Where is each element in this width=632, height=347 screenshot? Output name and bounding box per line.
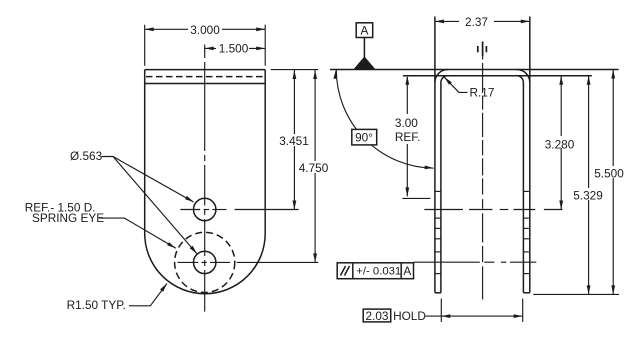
arrow 2.03 left	[441, 314, 450, 318]
right leg bottom	[523, 292, 529, 294]
dimension 3.000 extension line right	[264, 25, 266, 66]
left leg bottom	[435, 292, 441, 294]
arrow 4.750 bottom	[313, 253, 317, 262]
dimension 5.500 line	[612, 70, 614, 295]
arrow 5.500 bottom	[611, 285, 615, 294]
lower hole horizontal centerline	[178, 261, 319, 263]
arrow 3.451 bottom	[293, 201, 297, 210]
left leg inner edge	[440, 83, 442, 293]
left inner corner arc	[441, 76, 448, 83]
plate bottom arc R1.50	[145, 234, 266, 294]
arrow 5.329 top	[587, 76, 591, 85]
arrow 2.37 right	[521, 20, 530, 24]
svg-text:4.750: 4.750	[299, 161, 329, 175]
arrow leader 0.563 lower	[190, 246, 197, 254]
dimension 2.37 line	[435, 20, 530, 22]
plate left edge	[144, 70, 146, 234]
parallelism symbol	[341, 266, 346, 276]
left leg thread ticks	[435, 191, 440, 273]
svg-text:3.451: 3.451	[279, 134, 309, 148]
text 3.451	[278, 134, 311, 146]
upper eye centerline (right view)	[424, 209, 562, 211]
arrow 90 top	[333, 70, 337, 79]
text 2.37	[459, 16, 494, 27]
arrow R.17	[444, 77, 452, 85]
svg-text:3.00: 3.00	[395, 116, 418, 130]
2.03 HOLD left extension line	[440, 299, 442, 322]
arrow 3.000 left	[145, 27, 154, 31]
datum A box	[356, 23, 373, 38]
left leg outer edge	[434, 17, 436, 293]
arrow 3.280 bottom	[559, 201, 563, 210]
dimension 3.00 REF line	[406, 77, 408, 196]
dimension 3.000 extension line left	[144, 25, 146, 66]
90 degree box	[352, 129, 377, 145]
svg-text:HOLD: HOLD	[393, 309, 426, 323]
svg-text:R1.50 TYP.: R1.50 TYP.	[67, 298, 126, 312]
arrow 5.500 top	[611, 70, 615, 79]
lower hole	[194, 251, 216, 273]
datum stem	[363, 38, 365, 58]
svg-text:REF.: REF.	[395, 130, 421, 144]
leader spring eye	[99, 218, 176, 248]
plate right edge	[264, 70, 266, 234]
2.03 box	[363, 309, 391, 322]
spring eye hidden circle 1.50 D	[175, 232, 235, 292]
upper hole	[194, 198, 216, 220]
right outer corner arc	[517, 70, 530, 83]
arrow 3.00 REF top	[405, 76, 409, 85]
dimension 3.280 line	[560, 76, 562, 210]
svg-text:+/- 0.031: +/- 0.031	[356, 266, 401, 278]
arrow 3.280 top	[559, 76, 563, 85]
right leg thread ticks	[524, 191, 529, 273]
arrow 5.329 bottom	[587, 285, 591, 294]
right inner corner arc	[517, 76, 524, 83]
arrow 2.37 left	[435, 20, 444, 24]
arrow 1.500 right	[256, 47, 265, 51]
leader R.17	[444, 77, 467, 92]
90 degree dimension arc	[336, 70, 433, 168]
leader 0.563 tail	[102, 157, 194, 203]
datum surface line (outer top)	[330, 69, 619, 71]
text 3.280	[544, 136, 577, 148]
svg-text:2.37: 2.37	[465, 15, 488, 29]
inner top edge / extension line	[403, 75, 592, 77]
right leg outer edge	[529, 17, 531, 293]
center mark symbol	[478, 42, 487, 57]
text 3.000	[188, 24, 222, 35]
lower eye centerline (right view)	[414, 261, 537, 263]
arrow 1.500 left	[205, 47, 214, 51]
feature control frame box	[337, 263, 413, 279]
svg-text:3.280: 3.280	[545, 137, 575, 151]
svg-text:Ø.563: Ø.563	[70, 149, 103, 163]
text 5.500	[594, 166, 626, 178]
dimension 3.000 line	[145, 28, 266, 30]
arrow 4.750 top	[313, 70, 317, 79]
svg-text:A: A	[360, 24, 368, 38]
text 3.00 REF.	[393, 114, 426, 144]
upper hole horizontal centerline	[180, 209, 298, 211]
text 5.329	[573, 188, 606, 200]
dimension 5.329 line	[588, 76, 590, 295]
arrow leader R1.50	[160, 283, 167, 291]
arrow leader 0.563 upper	[185, 196, 194, 202]
arrow 3.000 right	[256, 27, 265, 31]
svg-text:2.03: 2.03	[366, 309, 389, 323]
svg-text:3.000: 3.000	[190, 23, 220, 37]
arrow 3.00 REF bottom	[405, 187, 409, 196]
plate bend band bottom line	[145, 83, 266, 85]
dimension 3.451 line	[293, 70, 295, 210]
svg-text:90°: 90°	[355, 131, 373, 145]
leader R1.50	[129, 284, 167, 306]
svg-text:R.17: R.17	[470, 86, 495, 100]
svg-text:A: A	[403, 264, 411, 278]
plate hidden bend line (dashed)	[146, 76, 264, 78]
svg-text:SPRING EYE: SPRING EYE	[32, 211, 104, 225]
2.03 HOLD dimension line	[441, 315, 522, 317]
left outer corner arc	[435, 70, 448, 83]
dimension 1.500 line	[205, 47, 266, 49]
top edge right extension line	[271, 69, 319, 71]
plate vertical centerline	[204, 45, 206, 312]
arrow 90 right	[425, 166, 434, 170]
plate top edge	[145, 69, 266, 71]
svg-text:1.500: 1.500	[219, 41, 249, 55]
2.03 HOLD right extension line	[522, 299, 524, 322]
text 4.750	[299, 161, 332, 173]
right leg inner edge	[522, 83, 524, 293]
2.03 HOLD leader	[425, 315, 443, 317]
3.00 REF bottom reference line	[403, 197, 431, 199]
arrow 2.03 right	[514, 314, 523, 318]
svg-text:5.329: 5.329	[573, 188, 603, 202]
bottom right extension line	[533, 293, 619, 295]
leader 0.563 second branch	[113, 157, 197, 254]
text 1.500	[216, 43, 249, 54]
datum filled triangle	[355, 58, 375, 70]
svg-text:5.500: 5.500	[594, 166, 624, 180]
arrow 3.451 top	[293, 70, 297, 79]
arrow leader spring eye	[167, 242, 176, 248]
dimension 4.750 line	[314, 70, 316, 262]
U vertical centerline	[482, 56, 484, 300]
